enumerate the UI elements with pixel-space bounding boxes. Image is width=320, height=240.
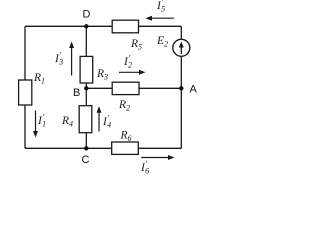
current arrow I2 — [119, 54, 146, 75]
resistor R4 — [61, 106, 92, 133]
node A — [179, 84, 197, 96]
wire bottom — [25, 147, 181, 149]
wire middle vertical D-B-C — [85, 26, 87, 148]
source E2 — [156, 35, 190, 56]
current arrow I3 — [54, 42, 74, 76]
node D — [83, 9, 91, 29]
node C — [82, 146, 90, 166]
resistor R6 — [112, 130, 139, 155]
wire top — [25, 25, 181, 27]
svg-text:B: B — [73, 87, 80, 99]
resistor R2 — [112, 82, 139, 112]
resistor R5 — [112, 20, 142, 51]
wire left — [24, 26, 26, 148]
resistor R3 — [80, 56, 108, 83]
svg-text:D: D — [83, 9, 91, 21]
current arrow I1 — [33, 111, 46, 138]
wire right — [180, 26, 182, 148]
node B — [73, 86, 89, 99]
resistor R1 — [19, 72, 45, 105]
current arrow I6 — [140, 155, 175, 176]
current arrow I5 — [145, 0, 174, 21]
wire middle horizontal B-A — [86, 87, 181, 89]
current arrow I4 — [97, 106, 112, 131]
svg-text:A: A — [190, 84, 198, 96]
svg-text:C: C — [82, 154, 90, 166]
